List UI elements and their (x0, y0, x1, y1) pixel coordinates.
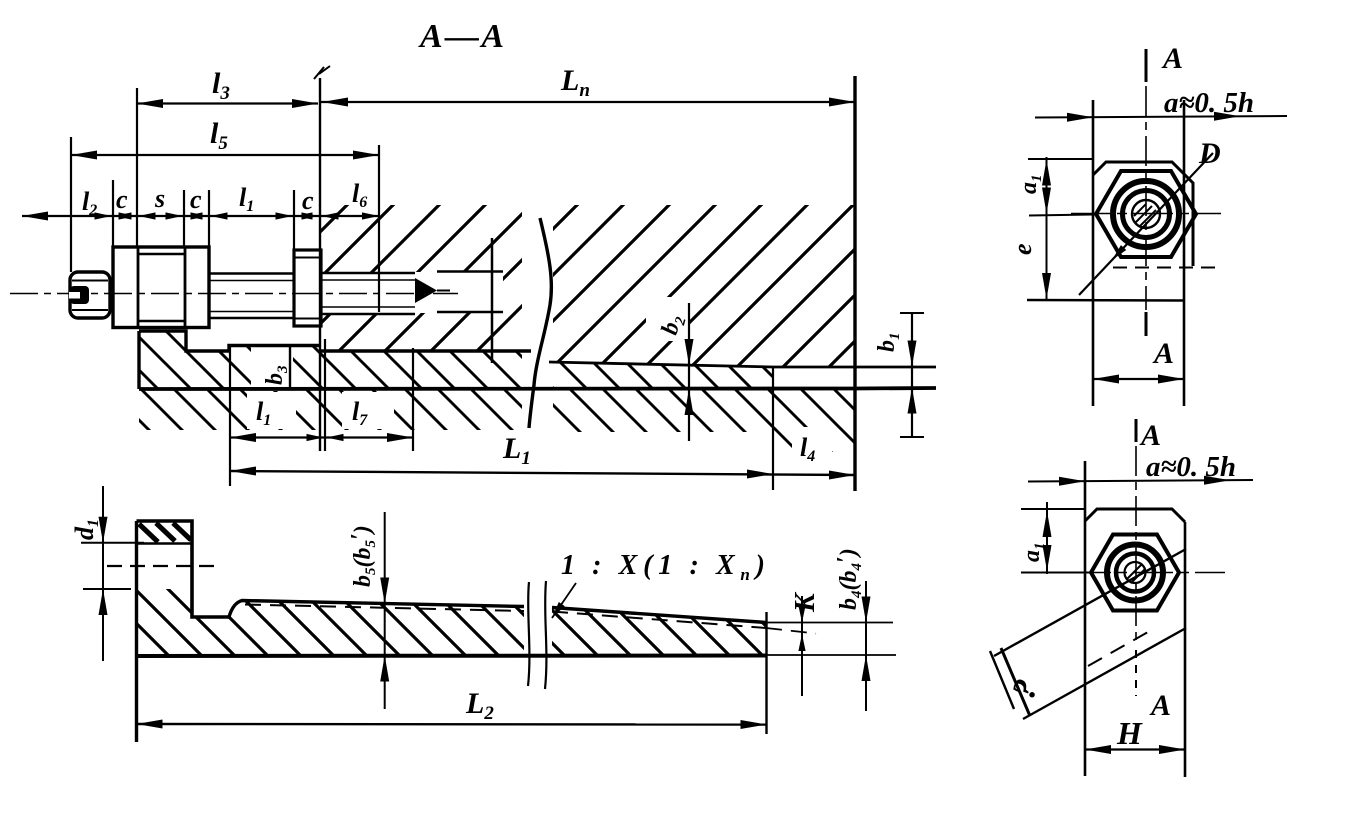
width dimension (top-right) (1093, 375, 1184, 384)
taper label 1:X(1:Xn) (549, 550, 765, 620)
dimension l5 (71, 117, 379, 160)
screw shank thread lines (209, 274, 294, 319)
extension line x294 (293, 190, 295, 250)
key bottom edge (137, 655, 897, 656)
svg-text:A: A (1161, 42, 1183, 75)
key body hatch left of break (bottom view) (137, 589, 525, 656)
extension line x325 (324, 339, 326, 451)
svg-text:e: e (1008, 243, 1037, 255)
dimension a1 (bottom-right) (1019, 502, 1090, 574)
bar section bottom line (top-right) (1027, 299, 1184, 302)
shaft step profile (139, 331, 320, 351)
D label and leader (1079, 137, 1221, 295)
boss outline (top-right) (1028, 159, 1220, 268)
extension line x209 (208, 190, 210, 247)
dimension l3 (137, 67, 318, 108)
key head outline (137, 521, 230, 742)
svg-text:A—A: A—A (418, 18, 504, 55)
extension line x113 (112, 180, 114, 247)
nut circles (bottom-right) (1107, 545, 1163, 601)
white-out label pockets (247, 297, 832, 463)
dimension L1 and l4 (230, 432, 855, 480)
chained small dimension line (22, 212, 380, 221)
dimension b1 (874, 313, 924, 437)
extension line x379 (378, 145, 380, 312)
break wavy line (top view) (529, 218, 551, 428)
svg-text:A: A (1139, 419, 1161, 452)
hex nut (top-right) (1096, 171, 1196, 257)
keyway bottom edge (139, 388, 936, 389)
svg-text:a≈0. 5h: a≈0. 5h (1164, 87, 1254, 119)
hub section hatch (A-A view) (320, 205, 855, 367)
svg-text:a≈0. 5h: a≈0. 5h (1146, 451, 1236, 483)
svg-text:A: A (1152, 337, 1174, 370)
label l6 (352, 179, 367, 211)
extension line x71 (70, 137, 72, 272)
label c (2) (190, 185, 202, 214)
key body hatch right of break (bottom view) (552, 608, 766, 656)
dimension b2 (657, 303, 694, 441)
dimension a1 and e (top-right) (1008, 157, 1093, 301)
white-out screw hole in hub (321, 272, 503, 313)
collar at hub face (294, 250, 321, 326)
extension line x413 (412, 348, 414, 451)
section line A (top) (1146, 42, 1183, 82)
label s (154, 184, 165, 213)
key band hatch left of break (139, 331, 524, 389)
label b3 (rotated) (262, 365, 291, 385)
vertical centerline (bottom-right view) (1135, 446, 1137, 696)
svg-text:s: s (154, 184, 165, 213)
dimension d1 (70, 486, 144, 661)
long extension line x320 (319, 78, 321, 451)
screw centerline (10, 293, 458, 295)
hub right face x855 (853, 76, 856, 491)
title A-A (418, 18, 504, 55)
dimension a~0.5h (bottom-right) (1028, 451, 1253, 486)
hole dashed line in head (107, 565, 216, 567)
svg-text:c: c (190, 185, 202, 214)
section line A (top of bottom-right view) (1136, 419, 1161, 452)
hub keyway top edge left of break (320, 349, 531, 352)
key band hatch right of break (552, 363, 773, 389)
dimension a~0.5h (top-right) (1035, 87, 1287, 122)
white-out break gap (522, 204, 553, 434)
section line A (bottom) (1149, 689, 1171, 722)
washer-nut block (113, 247, 209, 328)
svg-text:A: A (1149, 689, 1171, 722)
dimension K (790, 591, 821, 696)
hub keyway top edge right of break (tapered) (549, 362, 936, 367)
label l2 (82, 187, 97, 219)
dimension l1 l7 (lower) (230, 397, 413, 442)
label l1 (top row) (239, 183, 254, 215)
screw head slot (69, 286, 89, 304)
key end face (765, 612, 767, 734)
bar edges (bottom-right view) (1085, 461, 1185, 777)
vertical centerline (top-right view) (1145, 86, 1147, 310)
extension line x184 (183, 190, 185, 247)
label c (1) (116, 185, 128, 214)
svg-text:D: D (1198, 137, 1221, 170)
key head hatched top band (137, 523, 193, 544)
screw head (70, 272, 110, 318)
label c (3) (302, 186, 314, 215)
section line A (bottom of top-right view) (1146, 312, 1174, 370)
bar edges (top-right view) (1093, 100, 1184, 406)
key band through bar (bottom-right) (990, 549, 1186, 719)
shaft hatch right of break (552, 389, 855, 452)
shaft left end face (137, 331, 140, 389)
svg-text:1 : X(1 : Xn): 1 : X(1 : Xn) (561, 550, 765, 584)
horizontal centerline (bottom-right view) (1071, 572, 1225, 574)
key tapered top edge (229, 601, 893, 623)
hole end vertical in hub (491, 238, 494, 363)
svg-text:H: H (1116, 715, 1143, 751)
dimension L2 (137, 687, 767, 729)
extension line x230 (229, 345, 231, 486)
extension line x137 (136, 88, 138, 247)
horizontal centerline (top-right view) (1071, 213, 1221, 215)
threaded end in hub (321, 273, 450, 314)
dimension H (1085, 715, 1185, 754)
shaft hatch left of break (139, 389, 524, 430)
boss outline (bottom-right) (1085, 509, 1185, 522)
break lines (bottom view) (528, 581, 546, 689)
hex nut (bottom-right) (1091, 535, 1179, 611)
hub hole lines (437, 272, 503, 313)
extension line x773 (772, 368, 774, 490)
keyseat end line b3 (289, 346, 291, 390)
tick mark above x320 (314, 66, 330, 79)
taper dashed reference line (245, 605, 816, 634)
slope mark (1005, 674, 1046, 704)
svg-text:K: K (790, 591, 821, 613)
dimension b4(b4') (833, 548, 871, 711)
dimension b5(b5') (347, 512, 389, 709)
nut circles (top-right) (1113, 181, 1179, 247)
dimension Ln (320, 64, 855, 107)
svg-text:c: c (302, 186, 314, 215)
svg-text:c: c (116, 185, 128, 214)
